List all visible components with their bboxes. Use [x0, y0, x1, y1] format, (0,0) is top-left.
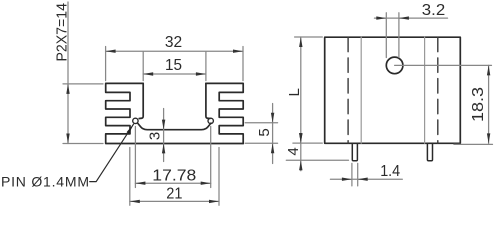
heatsink profile left view: serpentine fins left tower [106, 83, 244, 143]
mounting hole circle [386, 57, 403, 74]
right view hidden dashed line left [347, 37, 349, 143]
dim 15 extension lines [143, 52, 206, 81]
leader line [90, 124, 134, 181]
dim 1.4 extension lines [352, 163, 358, 186]
dim 18.3 dimension line [488, 65, 490, 143]
pin groove circle left [133, 118, 138, 123]
dim 18.3 arrows [487, 65, 490, 75]
dim L extension lines [293, 37, 322, 143]
pin groove circle right [208, 118, 213, 123]
dim 32 arrows [106, 50, 116, 53]
dim 3.2 arrows [376, 16, 386, 19]
right solder pin [427, 143, 432, 160]
dim 4 dimension line [300, 143, 302, 171]
dim 3.2 dimension line [375, 17, 448, 19]
right view hidden dashed line right [437, 37, 439, 143]
dim 5 extension lines [245, 123, 277, 144]
dim 3.2 extension lines [386, 13, 399, 58]
dim 5 dimension line [272, 104, 274, 164]
dim 4 extension line bottom [286, 159, 348, 161]
right view fin edge gray line left [360, 37, 362, 143]
svg-text:17.78: 17.78 [152, 167, 196, 184]
dim 17.78 dimension line [135, 182, 210, 184]
dim L arrows [299, 37, 302, 47]
dim L dimension line [300, 37, 302, 143]
left solder pin [352, 143, 357, 160]
dim 21 extension lines [130, 148, 219, 206]
dim 3 dimension line [163, 109, 165, 162]
svg-text:PIN Ø1.4MM: PIN Ø1.4MM [1, 174, 89, 190]
dim 1.4 dimension line [330, 178, 402, 180]
channel floor with fillets [138, 123, 211, 130]
dim 32 dimension line [106, 50, 243, 52]
dim 21 dimension line [130, 200, 219, 202]
dim 17.78 arrows [135, 182, 145, 185]
heatsink profile left view: serpentine fins right tower [206, 83, 243, 143]
svg-text:15: 15 [165, 57, 182, 74]
leader arrowhead [127, 124, 134, 134]
dim 21 arrows [130, 200, 140, 203]
svg-text:3: 3 [147, 132, 164, 140]
svg-text:P2X7=14: P2X7=14 [53, 3, 70, 62]
right tower inner wall [206, 83, 210, 118]
dim 15 dimension line [143, 73, 206, 75]
svg-text:4: 4 [285, 147, 302, 155]
dim 4 arrows [299, 133, 302, 143]
svg-text:L: L [286, 88, 303, 96]
dim 5 arrows [271, 113, 274, 123]
dim P2X7=14 arrows [66, 84, 69, 94]
svg-text:18.3: 18.3 [470, 87, 487, 122]
svg-text:3.2: 3.2 [422, 2, 445, 19]
right view body outline [325, 37, 461, 143]
svg-text:21: 21 [166, 186, 182, 203]
left tower inner wall [139, 83, 143, 118]
right view fin edge gray line right [424, 37, 426, 143]
dim 3 arrows [162, 120, 165, 130]
dim P2X7=14 extension lines [63, 84, 103, 144]
dim 17.78 extension lines [135, 127, 210, 188]
dim P2X7=14 dimension line [67, 2, 69, 144]
dim 15 arrows [143, 72, 153, 75]
dim 18.3 extension lines [395, 65, 493, 144]
svg-text:32: 32 [165, 34, 182, 51]
svg-text:5: 5 [256, 128, 273, 136]
dim 32 extension lines [106, 47, 243, 81]
svg-text:1.4: 1.4 [380, 163, 400, 180]
dim 1.4 arrows [342, 178, 352, 181]
